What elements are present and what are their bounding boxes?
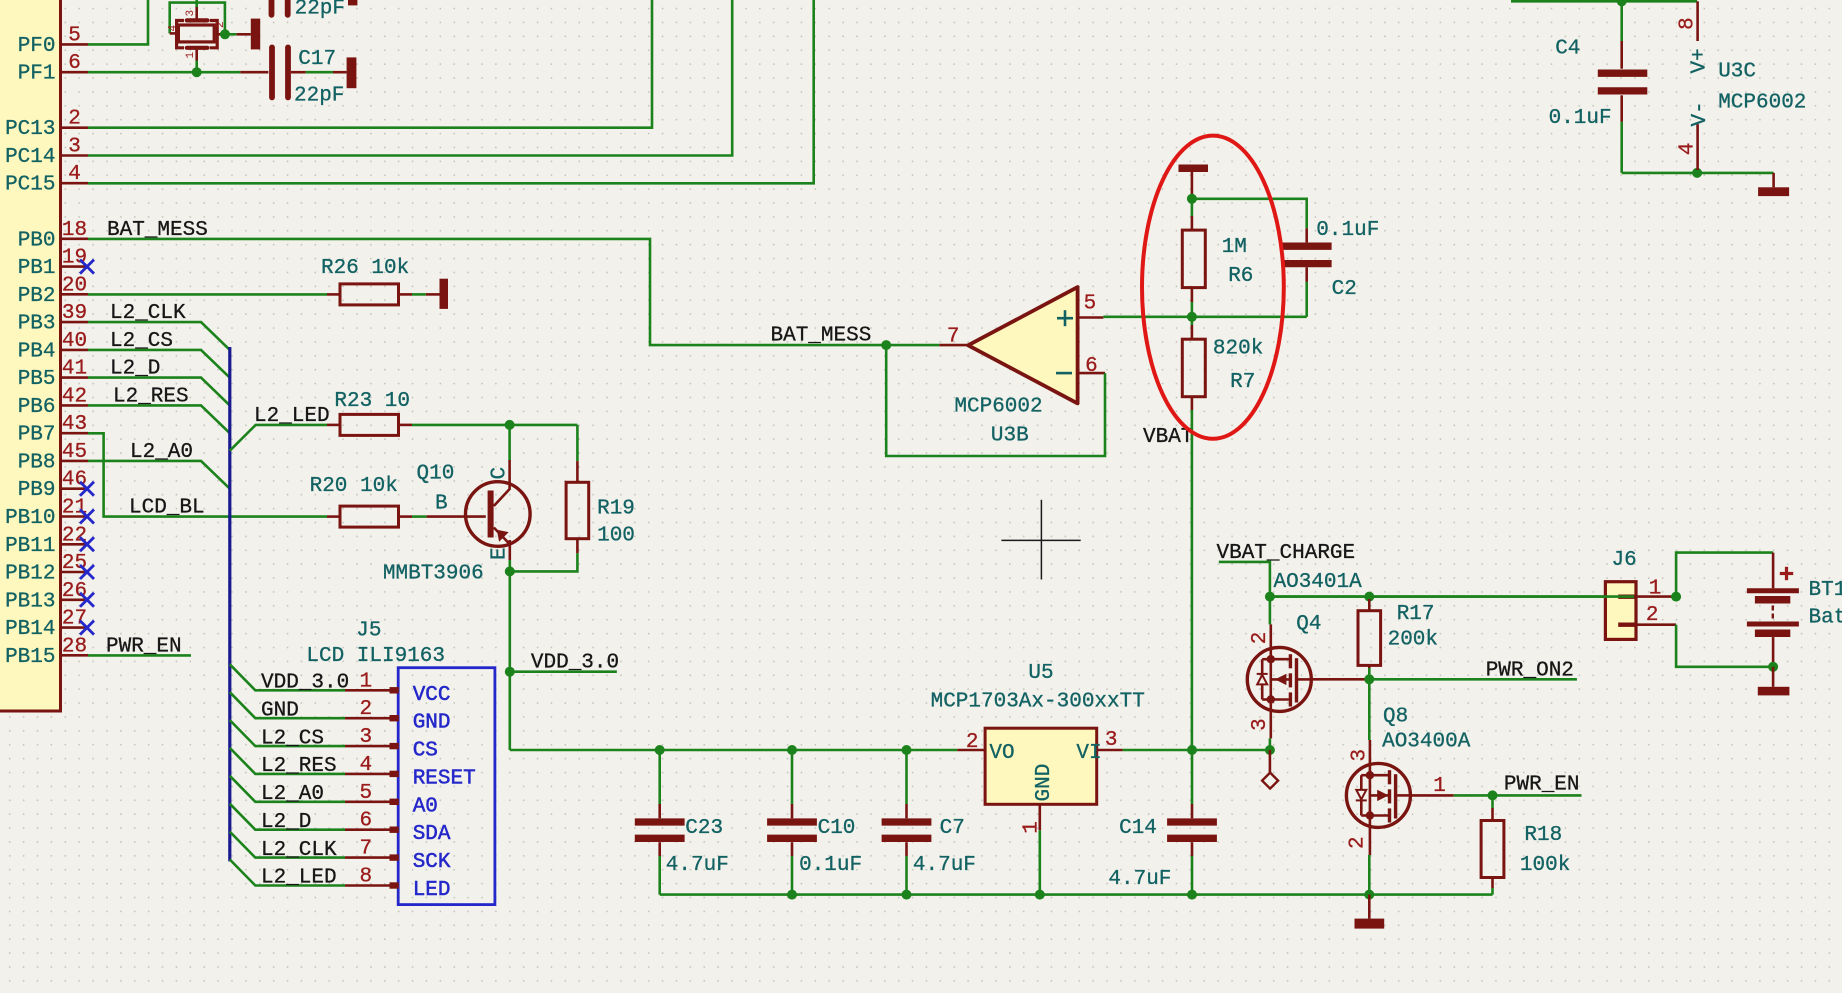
svg-text:V-: V- [1689, 101, 1712, 126]
svg-text:5: 5 [1084, 292, 1097, 315]
svg-text:42: 42 [62, 385, 87, 408]
svg-text:Q4: Q4 [1296, 613, 1321, 636]
svg-text:22pF: 22pF [295, 0, 345, 21]
svg-text:PB13: PB13 [5, 590, 55, 613]
svg-text:C10: C10 [818, 817, 856, 840]
svg-text:19: 19 [62, 247, 87, 270]
svg-text:J5: J5 [356, 620, 381, 643]
svg-text:4: 4 [168, 25, 180, 32]
svg-text:PC13: PC13 [5, 118, 55, 141]
svg-text:7: 7 [947, 325, 960, 348]
svg-text:C2: C2 [1332, 278, 1357, 301]
svg-text:4: 4 [1677, 142, 1700, 155]
svg-text:4.7uF: 4.7uF [1108, 868, 1171, 891]
svg-text:2: 2 [215, 21, 227, 28]
svg-text:2: 2 [1249, 632, 1272, 645]
svg-text:L2_LED: L2_LED [254, 405, 330, 428]
svg-text:4: 4 [68, 163, 81, 186]
svg-text:6: 6 [1085, 355, 1098, 378]
svg-text:1: 1 [1021, 821, 1044, 834]
svg-text:PB2: PB2 [18, 285, 56, 308]
svg-text:LED: LED [413, 879, 451, 902]
svg-text:C17: C17 [298, 48, 336, 71]
svg-text:39: 39 [62, 302, 87, 325]
svg-text:AO3401A: AO3401A [1274, 571, 1363, 594]
svg-text:C23: C23 [685, 817, 723, 840]
svg-text:Q10: Q10 [417, 463, 455, 486]
svg-text:3: 3 [1249, 718, 1272, 731]
svg-text:6: 6 [68, 52, 81, 75]
svg-text:PB9: PB9 [18, 479, 56, 502]
svg-text:43: 43 [62, 413, 87, 436]
svg-text:0.1uF: 0.1uF [799, 854, 862, 877]
svg-text:PB11: PB11 [5, 535, 55, 558]
svg-text:820k: 820k [1213, 338, 1263, 361]
svg-text:200k: 200k [1388, 628, 1438, 651]
svg-text:R26 10k: R26 10k [321, 257, 409, 280]
svg-text:PWR_ON2: PWR_ON2 [1486, 659, 1574, 682]
svg-text:PB12: PB12 [5, 563, 55, 586]
svg-text:L2_RES: L2_RES [113, 386, 189, 409]
svg-text:R20 10k: R20 10k [310, 475, 398, 498]
svg-text:E: E [489, 547, 512, 560]
svg-text:Batt: Batt [1809, 607, 1842, 630]
svg-text:A0: A0 [413, 795, 438, 818]
svg-text:U3C: U3C [1718, 61, 1756, 84]
svg-text:CS: CS [413, 740, 438, 763]
svg-text:21: 21 [62, 497, 87, 520]
svg-text:18: 18 [62, 219, 87, 242]
svg-text:VO: VO [989, 742, 1014, 765]
svg-text:R18: R18 [1524, 824, 1562, 847]
svg-text:C4: C4 [1555, 37, 1580, 60]
svg-text:Q8: Q8 [1383, 706, 1408, 729]
svg-text:V+: V+ [1689, 48, 1712, 73]
svg-text:PWR_EN: PWR_EN [1504, 773, 1580, 796]
svg-text:45: 45 [62, 441, 87, 464]
svg-text:3: 3 [185, 10, 197, 17]
svg-text:PB4: PB4 [18, 340, 56, 363]
svg-text:3: 3 [360, 726, 373, 749]
svg-text:L2_CS: L2_CS [110, 330, 173, 353]
svg-text:RESET: RESET [413, 767, 476, 790]
svg-text:3: 3 [68, 136, 81, 159]
svg-text:41: 41 [62, 358, 87, 381]
svg-text:R17: R17 [1397, 603, 1435, 626]
svg-text:4.7uF: 4.7uF [913, 854, 976, 877]
svg-text:VI: VI [1076, 742, 1101, 765]
svg-text:1M: 1M [1222, 236, 1247, 259]
svg-text:2: 2 [966, 731, 979, 754]
svg-text:PC14: PC14 [5, 146, 55, 169]
svg-text:R7: R7 [1230, 371, 1255, 394]
svg-text:L2_CLK: L2_CLK [110, 302, 186, 325]
svg-text:MCP6002: MCP6002 [954, 395, 1042, 418]
svg-text:C: C [489, 467, 512, 480]
svg-text:1: 1 [360, 670, 373, 693]
svg-text:R19: R19 [597, 498, 635, 521]
svg-text:2: 2 [1646, 604, 1659, 627]
svg-text:PF1: PF1 [18, 63, 56, 86]
svg-text:4.7uF: 4.7uF [666, 854, 729, 877]
svg-text:BAT_MESS: BAT_MESS [771, 324, 872, 347]
svg-text:PF0: PF0 [18, 35, 56, 58]
svg-text:J6: J6 [1612, 549, 1637, 572]
svg-text:PB15: PB15 [5, 646, 55, 669]
svg-text:1: 1 [1649, 578, 1662, 601]
svg-text:20: 20 [62, 274, 87, 297]
svg-text:AO3400A: AO3400A [1382, 731, 1471, 754]
svg-text:LCD_BL: LCD_BL [129, 497, 205, 520]
svg-text:7: 7 [360, 838, 373, 861]
svg-text:PB5: PB5 [18, 368, 56, 391]
svg-text:PB7: PB7 [18, 424, 56, 447]
svg-text:SDA: SDA [413, 823, 451, 846]
svg-text:40: 40 [62, 330, 87, 353]
svg-text:GND: GND [261, 699, 299, 722]
svg-text:GND: GND [413, 712, 451, 735]
svg-text:22pF: 22pF [294, 84, 344, 107]
svg-text:PB14: PB14 [5, 618, 55, 641]
svg-text:0.1uF: 0.1uF [1316, 219, 1379, 242]
svg-text:PWR_EN: PWR_EN [106, 635, 182, 658]
svg-text:8: 8 [360, 866, 373, 889]
svg-text:PB10: PB10 [5, 507, 55, 530]
svg-text:BT1: BT1 [1809, 579, 1842, 602]
svg-text:L2_LED: L2_LED [261, 867, 337, 890]
svg-text:L2_CS: L2_CS [261, 727, 324, 750]
svg-text:100k: 100k [1520, 854, 1570, 877]
svg-text:0.1uF: 0.1uF [1549, 107, 1612, 130]
svg-text:2: 2 [68, 108, 81, 131]
svg-text:1: 1 [185, 52, 197, 59]
svg-text:L2_D: L2_D [261, 811, 311, 834]
svg-text:VCC: VCC [413, 684, 451, 707]
svg-text:VDD_3.0: VDD_3.0 [531, 652, 619, 675]
svg-text:L2_A0: L2_A0 [130, 441, 193, 464]
svg-text:LCD ILI9163: LCD ILI9163 [306, 645, 445, 668]
svg-text:PB8: PB8 [18, 451, 56, 474]
svg-text:PB1: PB1 [18, 257, 56, 280]
svg-text:25: 25 [62, 552, 87, 575]
svg-text:U5: U5 [1028, 662, 1053, 685]
svg-text:28: 28 [62, 635, 87, 658]
svg-text:MMBT3906: MMBT3906 [383, 563, 484, 586]
svg-text:26: 26 [62, 580, 87, 603]
svg-text:L2_A0: L2_A0 [261, 783, 324, 806]
svg-text:4: 4 [360, 754, 373, 777]
svg-text:GND: GND [1033, 764, 1056, 802]
svg-text:B: B [435, 492, 448, 515]
svg-text:MCP1703Ax-300xxTT: MCP1703Ax-300xxTT [931, 691, 1145, 714]
svg-text:2: 2 [360, 698, 373, 721]
svg-text:PC15: PC15 [5, 174, 55, 197]
svg-text:2: 2 [1346, 836, 1369, 849]
svg-text:3: 3 [1349, 749, 1372, 762]
svg-text:L2_D: L2_D [110, 358, 160, 381]
svg-text:5: 5 [360, 782, 373, 805]
svg-text:SCK: SCK [413, 851, 451, 874]
svg-text:C14: C14 [1119, 817, 1157, 840]
svg-text:PB3: PB3 [18, 313, 56, 336]
svg-text:R23 10: R23 10 [334, 390, 410, 413]
svg-text:U3B: U3B [991, 424, 1029, 447]
svg-text:R6: R6 [1228, 265, 1253, 288]
svg-text:BAT_MESS: BAT_MESS [107, 219, 208, 242]
svg-text:6: 6 [360, 810, 373, 833]
svg-text:3: 3 [1105, 729, 1118, 752]
svg-text:L2_RES: L2_RES [261, 755, 337, 778]
svg-text:27: 27 [62, 608, 87, 631]
svg-text:MCP6002: MCP6002 [1718, 92, 1806, 115]
svg-text:C7: C7 [940, 817, 965, 840]
svg-text:100: 100 [597, 524, 635, 547]
svg-text:PB0: PB0 [18, 229, 56, 252]
svg-text:1: 1 [1433, 775, 1446, 798]
svg-text:5: 5 [68, 24, 81, 47]
svg-text:46: 46 [62, 469, 87, 492]
svg-text:22: 22 [62, 524, 87, 547]
svg-text:PB6: PB6 [18, 396, 56, 419]
svg-text:L2_CLK: L2_CLK [261, 839, 337, 862]
svg-text:VDD_3.0: VDD_3.0 [261, 672, 349, 695]
svg-text:8: 8 [1677, 17, 1700, 30]
